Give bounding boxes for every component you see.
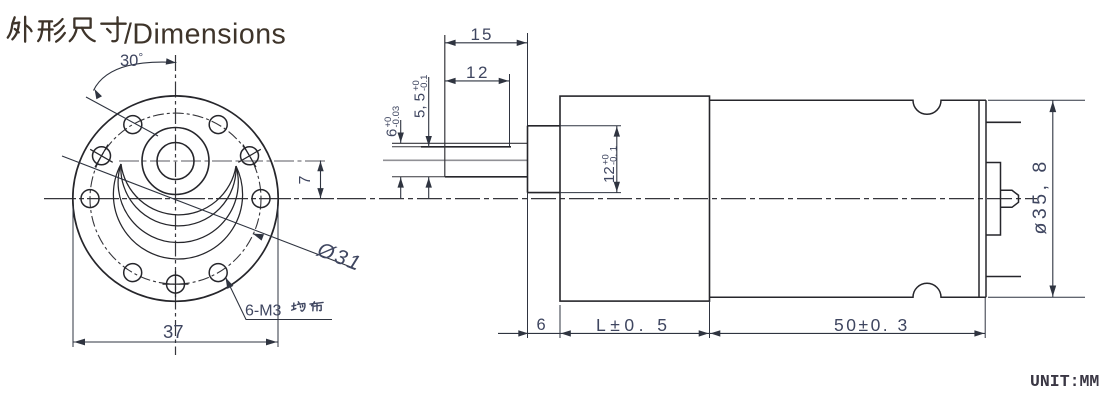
motor top edge with notch: [710, 100, 987, 114]
svg-text:Ø31: Ø31: [313, 238, 365, 276]
dia 35,8 text: [1029, 158, 1051, 234]
svg-text:UNIT:MM: UNIT:MM: [1030, 372, 1099, 391]
gearbox face ext line: [559, 305, 561, 338]
svg-text:5, 5: 5, 5: [412, 93, 429, 118]
svg-text:37: 37: [163, 321, 184, 342]
terminal pin top: [986, 121, 1021, 123]
junction ext line: [709, 301, 711, 338]
dim 15: [445, 42, 528, 44]
shaft flat line: [392, 146, 421, 148]
dim 37 line: [73, 341, 278, 343]
flange outer circle: [73, 96, 278, 301]
leader line for bolt circle dia 31: [62, 156, 356, 269]
shaft tip face / ext: [444, 35, 446, 177]
30 deg radial line: [86, 97, 158, 136]
gearbox body: [560, 96, 710, 301]
gear crescent arcs: [113, 164, 242, 259]
end cap ext down: [984, 297, 986, 338]
dim 12 +0 -0.1 boss dia: [560, 126, 621, 193]
bolt circle dash-dot: [90, 113, 261, 284]
output shaft circle: [157, 143, 194, 180]
rear shaft stub: [1001, 190, 1019, 207]
brush housing: [986, 163, 1001, 236]
svg-text:/Dimensions: /Dimensions: [124, 19, 286, 51]
svg-text:7: 7: [297, 176, 314, 185]
front vertical center line: [175, 55, 177, 355]
title text: outline dimensions: [8, 17, 287, 51]
svg-text:50±0. 3: 50±0. 3: [834, 315, 910, 335]
dim 12 flat length: [509, 74, 511, 146]
svg-text:-0. 1: -0. 1: [609, 146, 620, 165]
shaft bottom line: [392, 176, 445, 178]
dim 6 +0 -0.03 shaft dia: [400, 120, 402, 199]
dim 5,5 +0 -0.1 flat height: [428, 77, 430, 199]
svg-text:30°: 30°: [120, 50, 143, 70]
junbu CJK: [292, 302, 305, 311]
boss face ext line: [527, 33, 529, 338]
motor end cap lines: [978, 100, 980, 297]
boss outline: [528, 126, 561, 193]
side shaft center line: [383, 159, 528, 161]
6-M3 leader: [226, 278, 332, 320]
svg-text:-0.03: -0.03: [391, 106, 402, 128]
svg-text:12: 12: [601, 166, 618, 183]
svg-text:6-M3: 6-M3: [245, 303, 282, 320]
terminal pin bottom: [986, 276, 1021, 278]
motor bottom edge with notch: [710, 283, 987, 297]
bottom dimension line: [498, 332, 985, 334]
dim dia 35,8 ext lines: [988, 100, 1085, 297]
svg-text:6: 6: [384, 129, 401, 137]
dim 37 extension lines: [73, 206, 278, 347]
dim dia 35,8 line: [1052, 100, 1054, 297]
30 deg dimension arc: [94, 62, 177, 90]
shaft boss circle: [142, 128, 209, 195]
front shaft horizontal center line: [119, 160, 328, 162]
svg-text:15: 15: [471, 25, 494, 44]
bolt holes 6-M3: [252, 190, 270, 208]
front horizontal axis center line: [44, 198, 341, 200]
svg-text:L±0. 5: L±0. 5: [596, 315, 672, 335]
svg-text:-0.1: -0.1: [419, 75, 430, 91]
dim 7 axis offset: [320, 161, 322, 199]
shaft top line: [392, 142, 528, 144]
svg-text:12: 12: [466, 63, 490, 82]
side axis dash-dot: [341, 198, 1037, 200]
svg-text:ø35, 8: ø35, 8: [1029, 158, 1051, 234]
svg-text:6: 6: [537, 316, 546, 334]
